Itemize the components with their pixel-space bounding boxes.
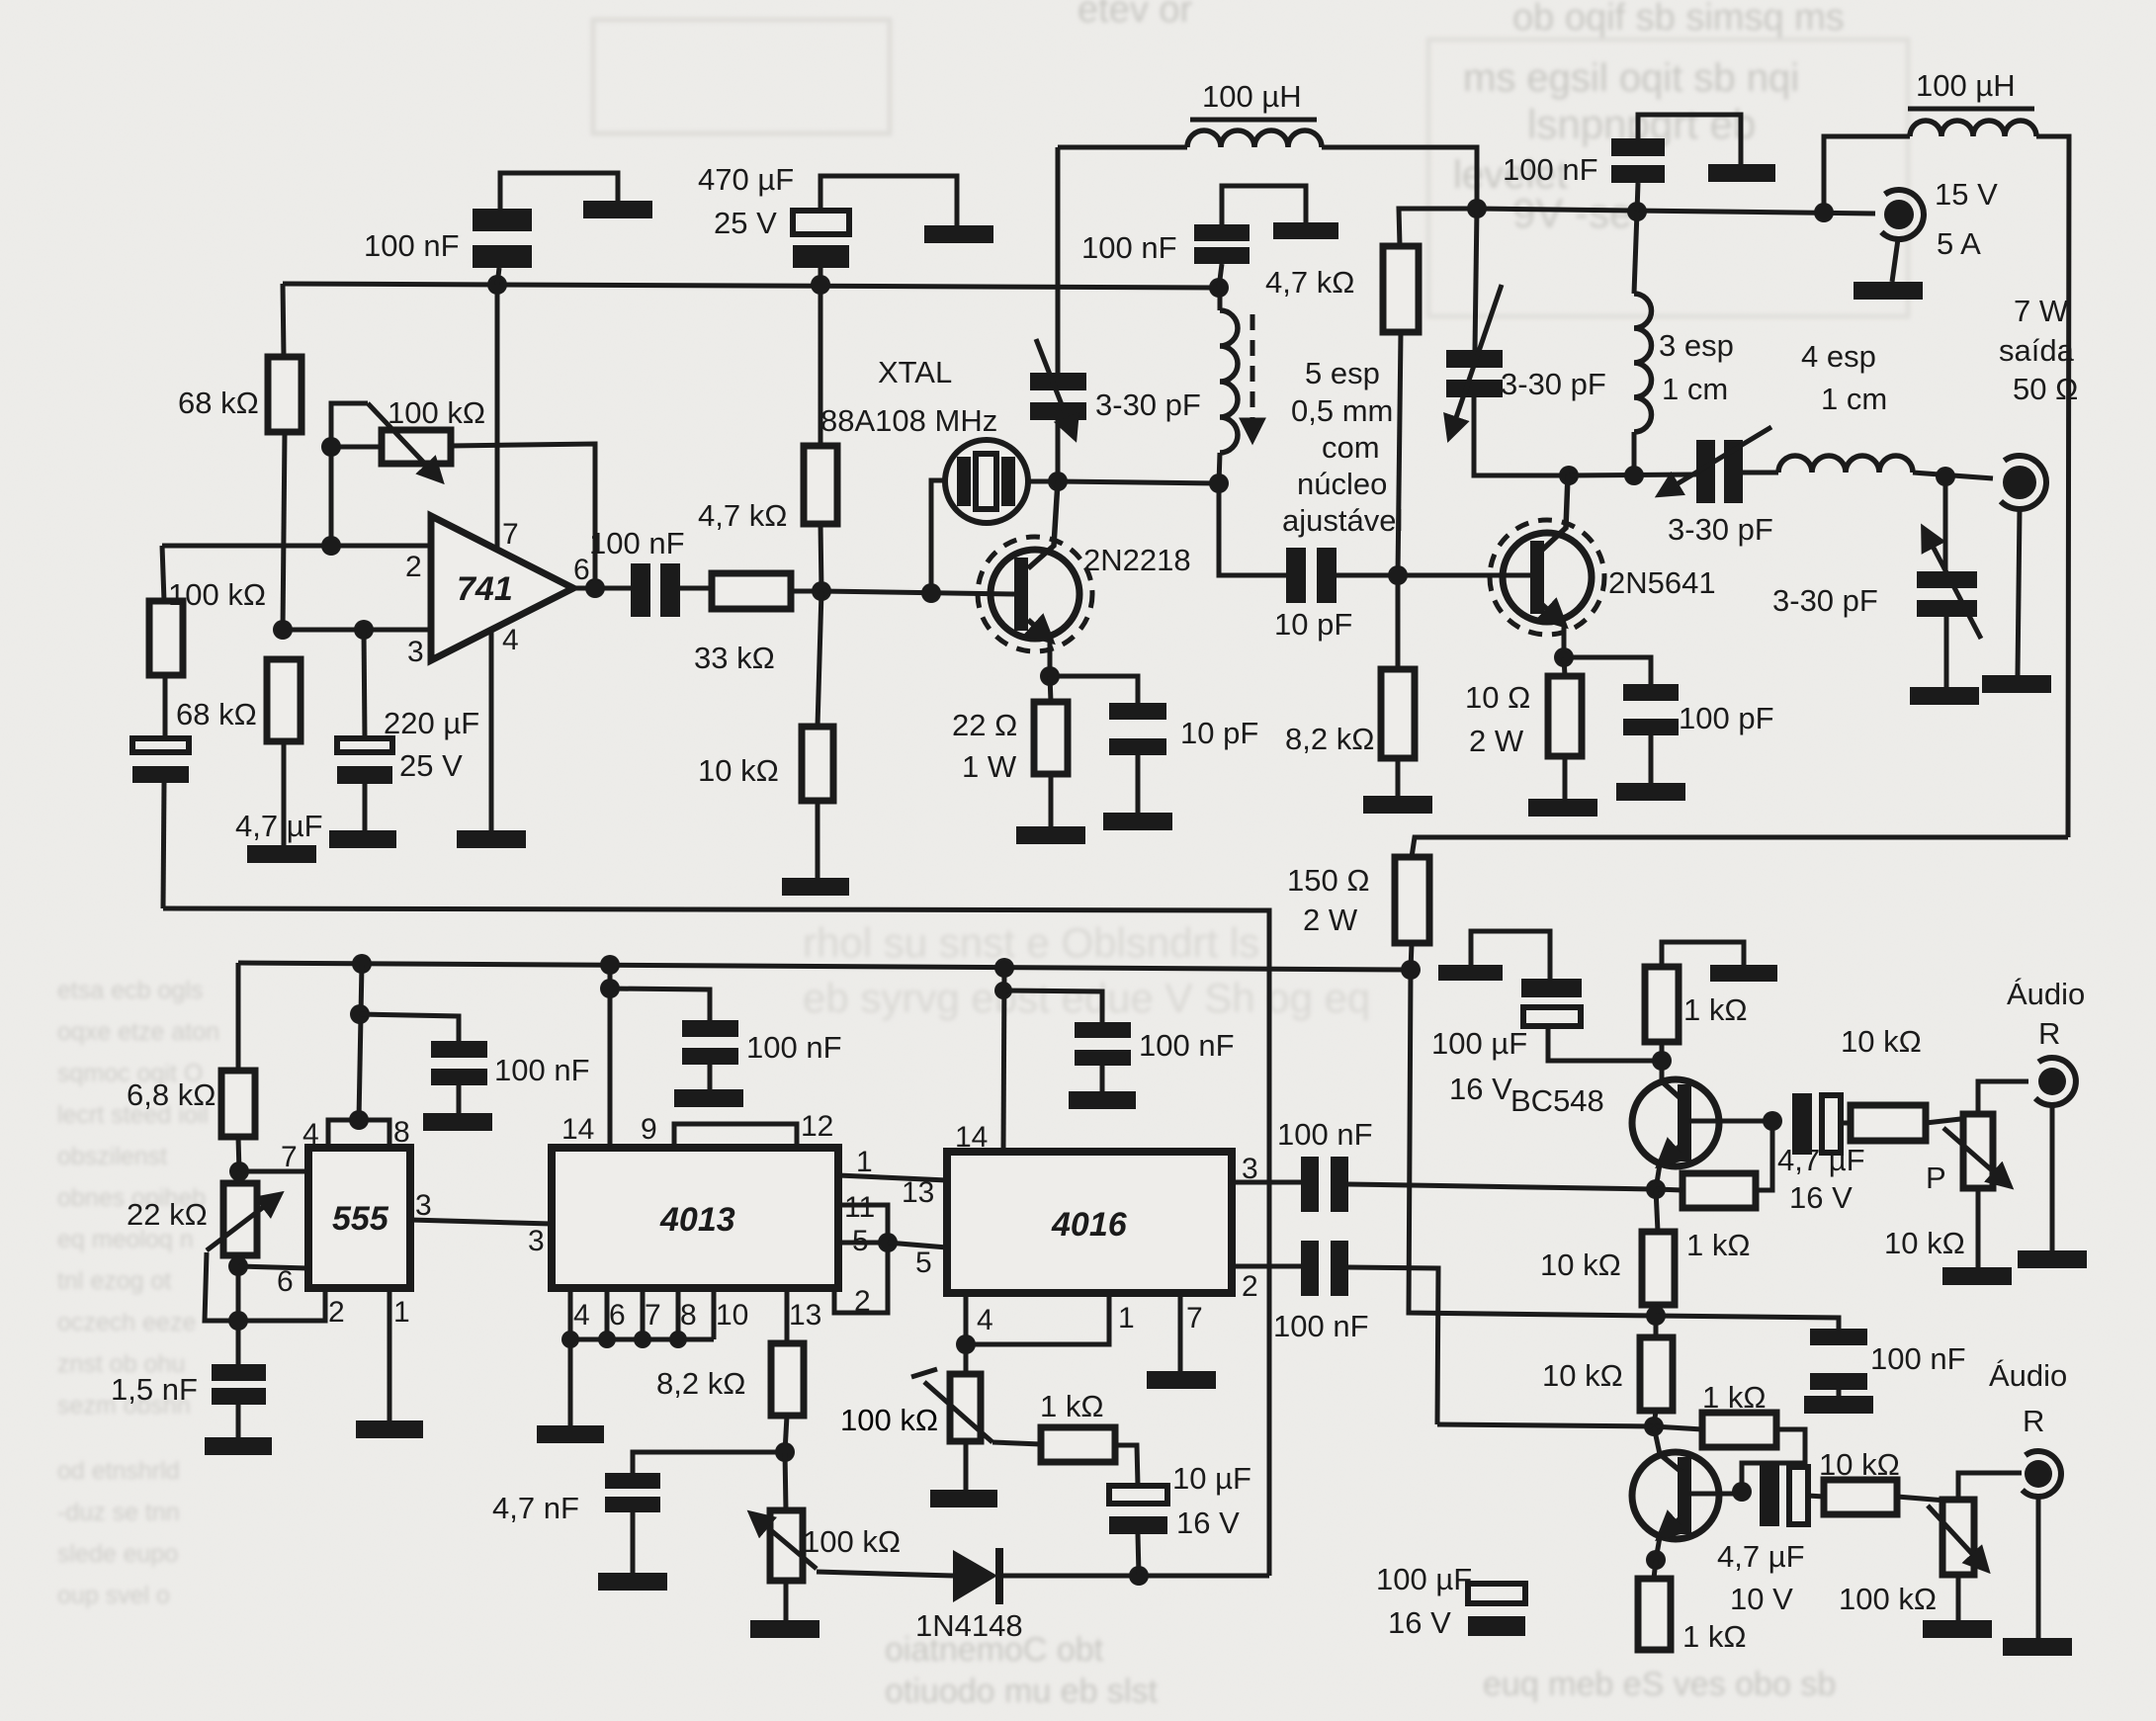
svg-text:1 kΩ: 1 kΩ — [1686, 1228, 1751, 1262]
svg-text:16 V: 16 V — [1789, 1180, 1853, 1215]
svg-text:16 V: 16 V — [1388, 1605, 1451, 1640]
svg-text:8: 8 — [393, 1116, 410, 1149]
svg-text:Áudio: Áudio — [2007, 977, 2085, 1011]
svg-text:1,5 nF: 1,5 nF — [111, 1372, 198, 1407]
value 10 pF — [1274, 607, 1352, 642]
ground bar 100nF right — [1708, 164, 1775, 182]
wire link to 4016 pin5 — [888, 1243, 947, 1248]
ground bar 15V jack — [1854, 282, 1923, 300]
label 7 W saida 50 Ohm — [1999, 294, 2078, 406]
svg-text:7: 7 — [1186, 1302, 1203, 1334]
node 33k / 4.7k junction — [812, 581, 831, 601]
wire tank node to coil node — [1058, 481, 1219, 483]
wire 4013 ground pins 4,6,7,8,10 — [570, 1288, 714, 1339]
value 100 nF — [494, 1053, 590, 1087]
label 15 V 5 A — [1935, 177, 1998, 261]
pin 3 — [1242, 1153, 1258, 1185]
pin 7 — [1186, 1302, 1203, 1334]
node bias mid — [1646, 1306, 1666, 1326]
wire 555 pin6 — [238, 1266, 308, 1268]
wire XTAL left lead — [931, 480, 946, 593]
ground bar 100nF 4013 — [674, 1089, 743, 1107]
wire V bus (lower section) — [238, 963, 1411, 970]
pin 8 — [680, 1299, 697, 1332]
svg-text:P: P — [1926, 1161, 1946, 1195]
node junction at 100nF/coil riser — [1209, 278, 1229, 298]
svg-text:4: 4 — [502, 624, 519, 656]
capacitor C 4.7nF — [605, 1452, 785, 1573]
wire feedback from output to pot — [451, 444, 595, 588]
svg-text:4 esp: 4 esp — [1801, 339, 1876, 374]
svg-text:100 nF: 100 nF — [1139, 1028, 1235, 1063]
pin 7 — [502, 518, 519, 551]
svg-text:1 kΩ: 1 kΩ — [1683, 992, 1748, 1027]
node 4013 supply — [600, 955, 620, 975]
svg-text:4: 4 — [573, 1299, 590, 1332]
svg-text:4: 4 — [977, 1304, 993, 1336]
ground bar 10k — [782, 878, 849, 896]
resistor R 8.2k — [1381, 575, 1415, 796]
svg-text:10 kΩ: 10 kΩ — [1540, 1248, 1621, 1282]
svg-text:100 kΩ: 100 kΩ — [1839, 1582, 1937, 1616]
svg-text:10 pF: 10 pF — [1180, 716, 1258, 750]
svg-text:4,7 kΩ: 4,7 kΩ — [1265, 265, 1354, 300]
pin 9 — [641, 1113, 657, 1146]
value 100 kOhm — [803, 1524, 901, 1559]
svg-text:3-30 pF: 3-30 pF — [1772, 583, 1878, 618]
capacitor C 100nF 4013 decoupling — [610, 989, 738, 1089]
resistor R 1k emitter 2nd — [1638, 1560, 1671, 1650]
connector J 15V 5A supply jack — [1881, 190, 1924, 282]
transistor Q 2N2218 — [978, 481, 1092, 676]
wire down to R 100k input — [162, 546, 164, 601]
resistor R 10k oscillator bias — [802, 591, 833, 878]
value 470 uF 25 V — [698, 162, 794, 240]
node emitter 2N5641 — [1554, 647, 1574, 667]
node pins tie — [561, 1331, 687, 1348]
node output — [585, 578, 605, 598]
svg-text:470 µF: 470 µF — [698, 162, 794, 197]
trimmer C 3-30pF tank (collector) — [1446, 209, 1569, 475]
node 10uF junction — [1129, 1566, 1149, 1586]
value 100 uF 16 V — [1376, 1562, 1472, 1640]
svg-text:100 kΩ: 100 kΩ — [803, 1524, 901, 1559]
wire pot left terminal down to inverting input line — [329, 447, 334, 546]
svg-text:10 V: 10 V — [1730, 1582, 1793, 1616]
pin 4 — [302, 1118, 319, 1151]
svg-text:4,7 nF: 4,7 nF — [492, 1491, 579, 1525]
value 3-30 pF — [1501, 367, 1606, 401]
svg-text:núcleo: núcleo — [1297, 467, 1387, 501]
svg-text:220 µF: 220 µF — [384, 706, 479, 740]
node 220uF tap — [354, 620, 374, 640]
wire 4016 pin2 line — [1232, 1264, 1301, 1269]
svg-text:10: 10 — [716, 1299, 748, 1332]
wire pin7 supply — [495, 285, 500, 550]
label 2N2218 — [1083, 543, 1191, 577]
ground bar pot P — [1942, 1267, 2012, 1285]
node 100uH right feed — [1814, 203, 1834, 222]
wire supply drop to lower section — [1412, 837, 2068, 857]
svg-text:2: 2 — [1242, 1270, 1258, 1303]
pin 6 — [573, 554, 590, 586]
ground bar Audio R lower — [2003, 1638, 2072, 1656]
ground bar for 100nF — [583, 201, 652, 218]
ground bar 100nF audio — [1804, 1396, 1873, 1414]
svg-text:33 kΩ: 33 kΩ — [694, 641, 775, 675]
value 100 nF — [1870, 1341, 1966, 1376]
svg-text:100 nF: 100 nF — [1870, 1341, 1966, 1376]
resistor R 8.2k divider — [771, 1288, 804, 1452]
resistor R 100k input — [149, 601, 183, 675]
resistor R 6.8k — [221, 963, 255, 1171]
node strap top — [349, 1110, 369, 1130]
capacitor C 100nF 555 decoupling — [360, 1014, 487, 1113]
svg-text:5: 5 — [915, 1247, 932, 1279]
potentiometer R 10k P — [1943, 1081, 2028, 1267]
node 100nF right — [1627, 202, 1647, 221]
pin 6 — [609, 1299, 626, 1332]
svg-text:R: R — [2038, 1016, 2060, 1051]
node pin4 tie — [956, 1334, 976, 1354]
transistor Q 2N5641 — [1490, 475, 1604, 657]
capacitor C 100nF output coupling — [631, 563, 712, 617]
svg-text:7: 7 — [502, 518, 519, 551]
svg-text:4,7 µF: 4,7 µF — [1717, 1539, 1805, 1574]
svg-text:100 kΩ: 100 kΩ — [840, 1403, 938, 1437]
svg-text:100 nF: 100 nF — [1273, 1309, 1369, 1343]
svg-text:1N4148: 1N4148 — [915, 1608, 1023, 1643]
node 2nd emitter — [1646, 1550, 1666, 1570]
ground bar 1.5nF — [205, 1437, 272, 1455]
resistor R 10k series output 2nd — [1824, 1480, 1958, 1514]
value 100 nF — [1277, 1117, 1373, 1152]
pin 3 — [407, 636, 424, 668]
svg-text:100 nF: 100 nF — [494, 1053, 590, 1087]
potentiometer R 100k feedback — [331, 403, 451, 478]
value 4,7 uF 10 V — [1717, 1539, 1805, 1616]
ground bar 100pF — [1616, 783, 1685, 801]
ground bar 100k pot — [750, 1620, 819, 1638]
node bus left — [1467, 199, 1487, 218]
svg-text:50 Ω: 50 Ω — [2013, 372, 2078, 406]
wire 555 supply riser — [359, 964, 362, 1120]
wire pin3 input line — [283, 628, 431, 633]
svg-text:5 A: 5 A — [1937, 226, 1981, 261]
node 3 esp bottom — [1624, 466, 1644, 485]
value 33 kOhm — [694, 641, 775, 675]
value 100 nF — [1139, 1028, 1235, 1063]
wire pin4 to ground — [489, 630, 494, 830]
svg-text:12: 12 — [801, 1110, 833, 1143]
svg-text:oczech eeze: oczech eeze — [57, 1309, 196, 1336]
svg-text:100 nF: 100 nF — [746, 1030, 842, 1065]
svg-text:9V -se: 9V -se — [1512, 190, 1632, 236]
wire 68k down through pin2 line to pin3 node — [283, 432, 285, 630]
node BC548 emitter — [1646, 1179, 1666, 1199]
pin 12 — [801, 1110, 833, 1143]
value 100 nF — [1273, 1309, 1369, 1343]
capacitor C 100nF coupling (pin2) — [1301, 1241, 1348, 1296]
wire to 2N5641 base — [1398, 573, 1530, 578]
node 4013-4016 link — [878, 1233, 898, 1252]
wire pins 4-1 strap — [966, 1293, 1109, 1344]
diode D 1N4148 — [953, 1548, 1269, 1604]
ground bar 8.2k — [1363, 796, 1432, 814]
value 1 kOhm — [1683, 992, 1748, 1027]
svg-text:7: 7 — [281, 1141, 298, 1173]
capacitor C 100nF audio bypass — [1656, 1316, 1867, 1396]
node emitter 2N2218 — [1040, 666, 1060, 686]
pin 6 — [277, 1265, 294, 1298]
inductor L 100uH (left) — [1058, 130, 1477, 209]
svg-text:oup svel o: oup svel o — [57, 1582, 170, 1609]
ground bar 10 Ohm — [1528, 799, 1597, 817]
wire 4013 pin14 supply — [608, 965, 613, 1148]
node pin7 junction — [229, 1162, 249, 1181]
wire 4.7uF down to audio feed line — [163, 783, 164, 908]
value 10 kOhm — [1542, 1358, 1623, 1393]
resistor R 150 Ohm 2W — [1395, 857, 1429, 970]
resistor R 10 Ohm 2W — [1548, 657, 1582, 799]
resistor R 33k — [712, 573, 820, 609]
node 2nd stage base — [1644, 1417, 1664, 1436]
ground bar 100nF 4016 — [1069, 1091, 1136, 1109]
trimmer R 100k control — [911, 1344, 992, 1490]
node pin3 left junction — [273, 620, 293, 640]
wire bus corner down to R 68k top — [283, 284, 284, 357]
node oscillator tank — [1048, 472, 1068, 491]
node XTAL branch — [921, 583, 941, 603]
capacitor C 220uF 25V electrolytic — [337, 738, 392, 830]
value 1 kOhm — [1682, 1619, 1747, 1654]
wire pin2 input line — [162, 544, 431, 549]
resistor R 68k (upper) — [268, 357, 302, 432]
resistor R 1k collector load — [1645, 942, 1744, 1061]
pin 13 — [902, 1176, 934, 1209]
value 3-30 pF — [1772, 583, 1878, 618]
resistor R 10k emitter upper — [1642, 1189, 1675, 1316]
label P 10 kOhm — [1884, 1161, 1965, 1260]
wire 22k wiper to pin2 line — [205, 1252, 325, 1321]
value 1,5 nF — [111, 1372, 198, 1407]
svg-text:rhol su snst e Oblsndrt ls: rhol su snst e Oblsndrt ls — [803, 919, 1259, 966]
node 100nF 4013 tap — [600, 979, 620, 998]
svg-text:22 Ω: 22 Ω — [952, 708, 1017, 742]
svg-text:68 kΩ: 68 kΩ — [178, 386, 259, 420]
svg-text:3: 3 — [528, 1225, 545, 1257]
svg-text:obszilenst: obszilenst — [57, 1143, 167, 1170]
pin 7 — [281, 1141, 298, 1173]
ground bar 1k collector — [1710, 965, 1777, 982]
value 100 uH with underline — [1908, 68, 2034, 109]
node junction at 470uF stem — [811, 275, 830, 295]
label 5 esp 0,5 mm com nucleo ajustavel — [1282, 356, 1403, 538]
svg-text:10 µF: 10 µF — [1172, 1461, 1251, 1496]
svg-text:25 V: 25 V — [714, 206, 777, 240]
capacitor C 4.7uF 10V output coupling 2nd — [1760, 1465, 1824, 1526]
op-amp U 741 — [431, 516, 573, 660]
svg-text:16 V: 16 V — [1176, 1506, 1240, 1540]
value 220 uF 25 V — [384, 706, 479, 783]
label 1N4148 — [915, 1608, 1023, 1643]
capacitor C 100nF supply (right) — [1611, 115, 1741, 212]
value 10 kOhm — [1819, 1447, 1900, 1482]
label BC548 — [1510, 1083, 1604, 1118]
ground bar 100k trimmer — [930, 1490, 997, 1507]
potentiometer R 100k (modulation) — [753, 1452, 817, 1620]
label Audio R — [2007, 977, 2085, 1051]
connector J 50 Ohm output jack — [2001, 456, 2046, 675]
value 100 nF — [746, 1030, 842, 1065]
pin 2 — [854, 1285, 871, 1318]
value 100 uF 16 V — [1431, 1026, 1527, 1106]
capacitor C 100pF emitter bypass — [1564, 657, 1679, 783]
svg-text:100 nF: 100 nF — [1081, 230, 1177, 265]
pin 3 — [415, 1189, 432, 1222]
node 4016 supply — [994, 958, 1014, 978]
svg-text:13: 13 — [902, 1176, 934, 1209]
value 100 kOhm — [840, 1403, 938, 1437]
value 68 kOhm — [176, 697, 257, 731]
pin 1 — [1118, 1302, 1135, 1334]
wire XTAL right lead — [1028, 479, 1058, 484]
svg-text:100 µH: 100 µH — [1202, 79, 1302, 114]
svg-text:3: 3 — [407, 636, 424, 668]
trimmer C 3-30pF series output — [1662, 427, 1778, 503]
pin 4 — [502, 624, 519, 656]
svg-text:8,2 kΩ: 8,2 kΩ — [1285, 722, 1374, 756]
svg-text:Áudio: Áudio — [1989, 1358, 2067, 1393]
svg-text:4: 4 — [302, 1118, 319, 1151]
ground bar 4016 pin7 — [1147, 1371, 1216, 1389]
capacitor C 470uF 25V electrolytic — [793, 176, 957, 285]
value 100 kOhm pot — [388, 395, 485, 430]
svg-text:100 pF: 100 pF — [1679, 701, 1774, 735]
wire 2nd stage feed — [1437, 1424, 1654, 1426]
svg-text:10 Ω: 10 Ω — [1465, 680, 1530, 715]
value 3-30 pF — [1668, 512, 1773, 547]
capacitor C 10pF coupling — [1219, 483, 1398, 603]
svg-text:6,8 kΩ: 6,8 kΩ — [127, 1077, 216, 1112]
svg-text:1: 1 — [1118, 1302, 1135, 1334]
svg-text:16 V: 16 V — [1449, 1072, 1512, 1106]
pin 14 — [561, 1113, 594, 1146]
svg-text:1 cm: 1 cm — [1821, 382, 1887, 416]
svg-text:0,5 mm: 0,5 mm — [1291, 393, 1393, 428]
svg-text:slede eupo: slede eupo — [57, 1540, 178, 1568]
ground bar 68k lower — [247, 845, 316, 863]
node on pin2 line — [321, 536, 341, 556]
wire 4016 pin3 line — [1232, 1180, 1301, 1185]
pin 2 — [1242, 1270, 1258, 1303]
pin 7 — [645, 1299, 661, 1332]
value 4,7 kOhm — [1265, 265, 1354, 300]
node driver base — [1388, 565, 1408, 585]
wire base line to 2N2218 — [821, 591, 1014, 594]
svg-text:4,7 µF: 4,7 µF — [1777, 1143, 1865, 1177]
svg-text:2 W: 2 W — [1303, 903, 1358, 937]
pin 5 — [915, 1247, 932, 1279]
transistor Q BC548 (2nd) — [1632, 1426, 1742, 1560]
value 1 kOhm — [1686, 1228, 1751, 1262]
value 100 kOhm — [168, 577, 266, 612]
svg-text:100 nF: 100 nF — [589, 526, 685, 560]
resistor R 1k keying — [992, 1427, 1138, 1486]
node junction at pin7 riser — [487, 275, 507, 295]
node collector line left — [1559, 466, 1579, 485]
svg-text:4013: 4013 — [659, 1201, 735, 1239]
svg-text:7 W: 7 W — [2014, 294, 2069, 328]
svg-text:22 kΩ: 22 kΩ — [127, 1197, 208, 1232]
ground bar 22 Ohm — [1016, 826, 1085, 844]
svg-text:14: 14 — [955, 1121, 988, 1154]
connector J Audio R (upper) — [2035, 1058, 2076, 1250]
ground bar 100nF 555 — [423, 1113, 492, 1131]
ground bar 4013 — [537, 1425, 604, 1443]
svg-text:tnl ezog ot: tnl ezog ot — [57, 1267, 171, 1295]
wire pins 9-12 strap — [674, 1124, 797, 1148]
value 8,2 kOhm — [656, 1366, 745, 1401]
value 10 kOhm — [1540, 1248, 1621, 1282]
svg-text:15 V: 15 V — [1935, 177, 1998, 212]
wire pins 11-5 strap — [834, 1205, 888, 1313]
analog switch U 4016 — [947, 1152, 1232, 1293]
ground bar 4.7nF — [598, 1573, 667, 1591]
resistor R 68k (lower) — [267, 659, 301, 845]
wire 4016 pin14 supply — [1003, 968, 1004, 1152]
ground bar for 470uF — [924, 225, 993, 243]
svg-text:2N2218: 2N2218 — [1083, 543, 1191, 577]
resistor R 4.7k driver bias — [1383, 209, 1477, 575]
svg-text:25 V: 25 V — [399, 748, 463, 783]
value 4,7 kOhm — [698, 498, 787, 533]
value 100 pF — [1679, 701, 1774, 735]
transistor Q BC548 — [1632, 1061, 1772, 1189]
svg-text:6: 6 — [573, 554, 590, 586]
pin 4 — [573, 1299, 590, 1332]
resistor R 10k bias lower — [1640, 1316, 1673, 1426]
value 68 kOhm — [178, 386, 259, 420]
svg-text:BC548: BC548 — [1510, 1083, 1604, 1118]
wire 4016 pin7 ground — [1178, 1293, 1183, 1371]
value 4,7 nF — [492, 1491, 579, 1525]
svg-text:88A108 MHz: 88A108 MHz — [820, 403, 997, 438]
node BC548 collector — [1652, 1051, 1672, 1071]
svg-text:1 kΩ: 1 kΩ — [1040, 1389, 1104, 1423]
svg-text:100 µH: 100 µH — [1916, 68, 2016, 103]
node 8.2k bottom — [775, 1442, 795, 1462]
capacitor C 100nF (tank feed) — [1194, 186, 1306, 288]
svg-text:1 kΩ: 1 kΩ — [1702, 1380, 1767, 1415]
node 2nd output — [1732, 1482, 1752, 1502]
node 150 Ohm output — [1401, 960, 1421, 980]
resistor R 1k feedback — [1656, 1121, 1772, 1208]
value 4,7 uF — [235, 809, 323, 843]
svg-text:com: com — [1322, 430, 1380, 465]
wire long audio feed line to bottom section — [163, 908, 1269, 1576]
svg-text:1 kΩ: 1 kΩ — [1682, 1619, 1747, 1654]
pin 3 — [528, 1225, 545, 1257]
svg-text:100 kΩ: 100 kΩ — [388, 395, 485, 430]
value 10 kOhm — [698, 753, 779, 788]
value 150 Ohm 2 W — [1287, 863, 1370, 937]
svg-text:ms egsil oqit sb nqi: ms egsil oqit sb nqi — [1463, 56, 1799, 100]
label Audio R — [1989, 1358, 2067, 1438]
capacitor C 100uF 16V electrolytic — [1471, 931, 1662, 1061]
capacitor C 10pF emitter bypass — [1050, 676, 1166, 813]
label XTAL 88A108 MHz — [820, 355, 997, 438]
